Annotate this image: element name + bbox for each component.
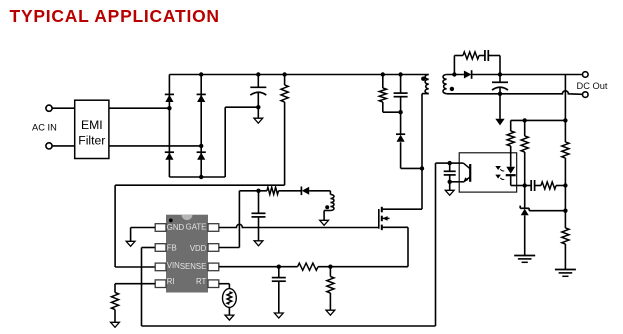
svg-text:DC Out: DC Out: [577, 81, 608, 91]
svg-text:VIN: VIN: [167, 261, 180, 270]
svg-text:AC IN: AC IN: [32, 123, 57, 133]
svg-text:VDD: VDD: [190, 244, 207, 253]
svg-text:GATE: GATE: [186, 222, 207, 231]
svg-text:EMI: EMI: [81, 118, 103, 132]
svg-text:RI: RI: [167, 277, 175, 286]
svg-text:Filter: Filter: [78, 134, 105, 148]
svg-text:GND: GND: [167, 223, 185, 232]
svg-text:RT: RT: [196, 277, 206, 286]
svg-text:FB: FB: [167, 243, 177, 252]
svg-text:SENSE: SENSE: [180, 262, 206, 271]
